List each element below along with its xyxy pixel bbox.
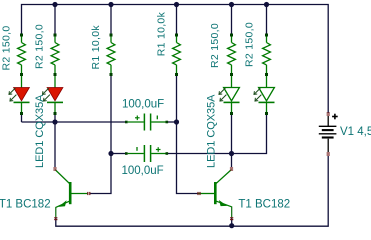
wire R1a bottom down to node B [110,74,112,154]
pin mark Q2 base [198,192,200,195]
pin mark V1 minus [327,153,330,155]
wire bottom bus [56,156,328,226]
wire node A horizontal (collector Q1 / C1 left) [22,121,127,123]
pin mark Q1 collector [53,168,56,170]
pin mark Q1 emitter [54,218,57,220]
node junction dot top V3 [108,2,113,7]
label Q2 [238,199,290,211]
wire column V4 [176,5,178,35]
wire node B down and to Q1 base [90,154,111,194]
wire top bus [22,5,329,114]
wire node A down to Q1 collector [54,122,56,167]
resistor R2a (x=21.5) [18,34,26,77]
node junction dot top V5 [229,2,234,7]
resistor R2d (x=266.5) [263,34,271,77]
svg-text:R1 10,0k: R1 10,0k [90,25,102,70]
capacitor C1 (y=122) [125,114,168,131]
svg-text:T1 BC182: T1 BC182 [0,199,51,211]
svg-text:R2 150,0: R2 150,0 [244,22,256,67]
capacitor C2 (y=153.5) [125,145,168,162]
node junction dot B [108,151,113,156]
node junction dot top V6 [264,2,269,7]
pin Q2 emitter lead [231,206,233,217]
label R1a value [90,25,102,70]
wire column V5 [231,5,233,35]
wire C2 right to node D horizontal [167,115,267,154]
pin Q1 emitter lead [55,207,57,218]
label LED1 CQX35A right [206,94,218,168]
label Q1 [0,199,51,211]
svg-text:LED1 CQX35A: LED1 CQX35A [34,94,46,168]
resistor R2c (x=231.5) [228,34,236,77]
svg-text:R2 150,0: R2 150,0 [209,23,221,68]
label C1 value [122,99,164,111]
battery V1 [319,116,337,152]
svg-text:V1 4,5: V1 4,5 [340,126,371,138]
label R2b value [34,24,46,69]
svg-text:100,0uF: 100,0uF [122,165,164,177]
svg-text:100,0uF: 100,0uF [122,99,164,111]
resistor R2b (x=55) [51,34,59,77]
node junction dot top V2 [52,2,57,7]
label V1 [340,126,371,138]
LED D1 red (x=21.5) [9,76,30,115]
label R2a value [1,25,13,70]
pin mark Q2 collector [230,168,233,170]
wire column V2 [54,5,56,35]
wire LED1c bottom to node D [231,115,233,154]
svg-text:R1 10,0k: R1 10,0k [156,11,168,56]
svg-text:R2 150,0: R2 150,0 [1,25,13,70]
resistor R1a (x=111) [107,34,115,77]
wire column V3 [110,5,112,35]
svg-text:R2 150,0: R2 150,0 [34,24,46,69]
node junction dot top V4 [174,2,179,7]
label R1b value [156,11,168,56]
label C2 value [122,165,164,177]
label LED1 CQX35A left [34,94,46,168]
svg-text:T1 BC182: T1 BC182 [238,199,290,211]
LED D3 green (x=231.5) [219,76,240,115]
node junction dot D [229,151,234,156]
label R2c value [209,23,221,68]
battery plus sign [332,114,338,120]
node junction dot C [174,119,179,124]
wire node D down to Q2 collector [231,154,233,168]
node junction dot A [52,119,57,124]
transistor Q1 (left, mirrored) [55,170,88,208]
wire LED1b bottom to node A [54,115,56,122]
wire R1b bottom to node C [176,74,178,123]
pin mark Q2 emitter [230,218,233,220]
wire C1 right to node C [167,121,177,123]
label R2d value [244,22,256,67]
wire LED1a bottom to node [21,115,23,122]
svg-text:LED1 CQX35A: LED1 CQX35A [206,94,218,168]
pin mark V1 plus [327,113,330,115]
node junction dot bottom bus [229,223,234,228]
LED D2 red (x=55) [43,76,64,115]
wire node B to C2 left [111,153,126,155]
wire node C down and to Q2 base [177,122,198,194]
resistor R1b (x=176.5) [173,34,181,77]
wire column V6 [266,5,268,35]
LED D4 green (x=266.5) [254,76,275,115]
transistor Q2 (right) [199,170,232,207]
wire Q2 emitter to bottom bus [231,217,233,226]
pin mark Q1 base [88,192,90,195]
